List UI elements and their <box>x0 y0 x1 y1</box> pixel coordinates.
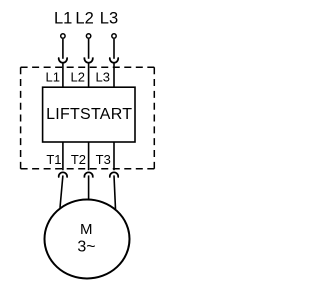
svg-text:T1: T1 <box>46 152 61 167</box>
wire L2 pin <box>88 39 90 59</box>
terminal circle L3 <box>112 34 116 38</box>
motor M1 <box>45 200 130 279</box>
wire L1 pin <box>62 39 64 59</box>
connector socket T1 <box>59 172 67 177</box>
svg-text:L2: L2 <box>75 10 93 28</box>
wire L3 pin <box>113 39 115 59</box>
wire motor U <box>60 175 63 207</box>
svg-text:3~: 3~ <box>77 238 95 255</box>
wire L2 to box <box>88 62 90 87</box>
svg-text:L1: L1 <box>54 10 72 28</box>
connector socket T3 <box>110 172 118 177</box>
dashed enclosure bottom edge <box>21 168 155 170</box>
svg-text:T3: T3 <box>96 152 111 167</box>
starter box U1 <box>43 87 135 142</box>
wire T3 from box <box>113 142 115 170</box>
svg-text:M: M <box>80 221 93 238</box>
svg-text:L3: L3 <box>96 70 110 85</box>
svg-text:L3: L3 <box>100 10 118 28</box>
connector socket L2 <box>84 57 92 62</box>
terminal circle L1 <box>61 34 65 38</box>
connector socket L1 <box>59 57 67 62</box>
wire L3 to box <box>113 62 115 87</box>
wire motor V <box>88 175 90 199</box>
dashed enclosure right edge <box>153 67 155 169</box>
wire T2 from box <box>88 142 90 170</box>
connector socket L3 <box>110 57 118 62</box>
svg-text:LIFTSTART: LIFTSTART <box>46 106 132 123</box>
wire L1 to box <box>62 62 64 87</box>
wire motor W <box>114 175 116 209</box>
wire T1 from box <box>62 142 64 170</box>
svg-text:T2: T2 <box>71 152 86 167</box>
dashed enclosure left edge <box>20 67 22 169</box>
connector socket T2 <box>84 172 92 177</box>
dashed enclosure top edge <box>21 66 155 68</box>
svg-text:L1: L1 <box>46 70 60 85</box>
terminal circle L2 <box>86 34 90 38</box>
svg-text:L2: L2 <box>71 70 85 85</box>
